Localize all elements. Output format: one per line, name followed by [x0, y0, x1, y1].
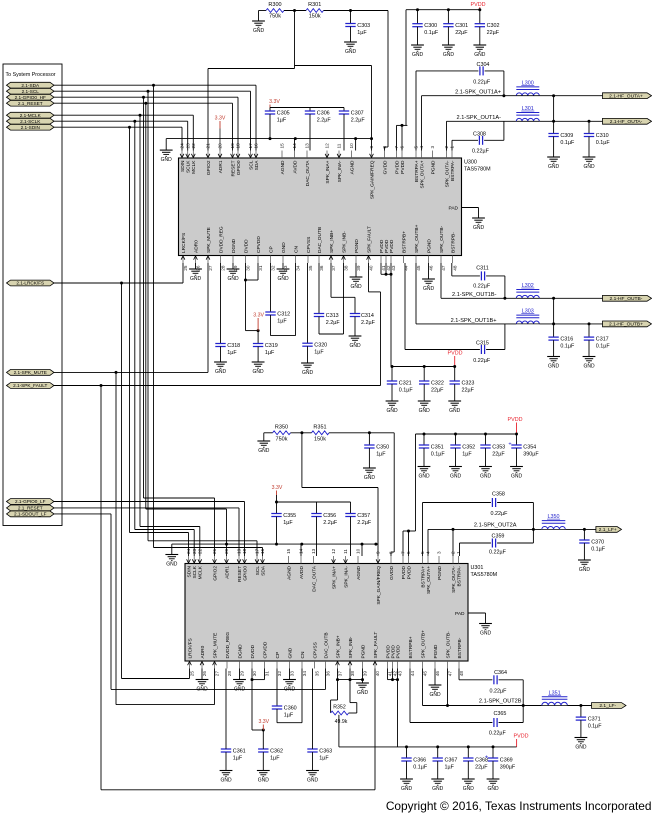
- svg-text:PGND: PGND: [430, 160, 436, 174]
- svg-text:0.22µF: 0.22µF: [489, 730, 507, 736]
- svg-text:ADR1: ADR1: [224, 566, 230, 579]
- svg-text:GVDD: GVDD: [382, 160, 388, 174]
- svg-text:30: 30: [246, 265, 251, 271]
- svg-text:28: 28: [221, 265, 226, 271]
- svg-text:0.1µF: 0.1µF: [588, 723, 603, 729]
- svg-text:26: 26: [196, 265, 201, 271]
- svg-text:1µF: 1µF: [277, 117, 287, 123]
- svg-text:GND: GND: [480, 473, 492, 479]
- svg-text:SPK_OUTB-: SPK_OUTB-: [445, 631, 451, 659]
- svg-text:GND: GND: [583, 363, 595, 369]
- svg-text:PVDD: PVDD: [394, 160, 400, 174]
- svg-text:44: 44: [410, 671, 415, 677]
- svg-text:2.2µF: 2.2µF: [317, 117, 332, 123]
- svg-text:SPK_OUTA+: SPK_OUTA+: [426, 566, 432, 594]
- svg-text:SPK_OUTB+: SPK_OUTB+: [420, 630, 426, 659]
- svg-text:C320: C320: [314, 343, 327, 349]
- svg-text:2.1-SCL: 2.1-SCL: [22, 89, 40, 94]
- svg-text:+: +: [508, 442, 511, 448]
- svg-text:SCL: SCL: [248, 160, 254, 170]
- svg-text:31: 31: [265, 671, 270, 677]
- svg-text:1µF: 1µF: [319, 755, 329, 761]
- svg-text:C303: C303: [357, 23, 370, 29]
- svg-text:GND: GND: [345, 49, 357, 55]
- svg-text:10: 10: [356, 548, 361, 554]
- svg-text:22µF: 22µF: [462, 387, 475, 393]
- svg-text:2.1-SDIN: 2.1-SDIN: [21, 125, 40, 130]
- svg-text:C365: C365: [493, 711, 506, 717]
- svg-text:2.1-HF_OUTB-: 2.1-HF_OUTB-: [610, 296, 643, 302]
- svg-text:48: 48: [459, 671, 464, 677]
- svg-text:390µF: 390µF: [523, 451, 539, 457]
- svg-text:1µF: 1µF: [233, 755, 243, 761]
- svg-text:AGND: AGND: [280, 160, 286, 174]
- svg-text:SCL: SCL: [255, 566, 261, 576]
- svg-text:CN: CN: [300, 651, 306, 658]
- svg-text:R351: R351: [313, 425, 326, 431]
- svg-text:GND: GND: [277, 276, 289, 282]
- svg-text:GND: GND: [386, 408, 398, 414]
- svg-text:34: 34: [302, 671, 307, 677]
- svg-text:2.1-GPIO0_LF: 2.1-GPIO0_LF: [15, 499, 46, 504]
- svg-text:2.1-HF_OUTA-: 2.1-HF_OUTA-: [610, 119, 643, 125]
- svg-text:3: 3: [437, 551, 442, 554]
- svg-text:C371: C371: [588, 717, 601, 723]
- svg-text:DVDD_REG: DVDD_REG: [218, 226, 224, 253]
- svg-text:28: 28: [227, 671, 232, 677]
- svg-text:SPK_INB+: SPK_INB+: [329, 230, 335, 253]
- svg-text:C359: C359: [492, 533, 505, 539]
- svg-text:C352: C352: [462, 445, 475, 451]
- svg-text:SPK_GAIN/FREQ: SPK_GAIN/FREQ: [376, 566, 382, 605]
- svg-text:GND: GND: [166, 561, 178, 567]
- svg-text:32: 32: [271, 265, 276, 271]
- svg-text:DAC_OUTB: DAC_OUTB: [317, 227, 323, 253]
- svg-text:GND: GND: [419, 408, 431, 414]
- svg-text:0.1µF: 0.1µF: [591, 546, 606, 552]
- svg-text:25: 25: [190, 671, 195, 677]
- svg-text:33: 33: [283, 265, 288, 271]
- svg-text:GND: GND: [412, 52, 424, 58]
- svg-text:30: 30: [252, 671, 257, 677]
- svg-text:GND: GND: [429, 692, 441, 698]
- svg-text:2.2µF: 2.2µF: [361, 320, 376, 326]
- svg-text:C364: C364: [494, 670, 507, 676]
- svg-text:C304: C304: [477, 62, 490, 68]
- svg-text:1µF: 1µF: [265, 350, 275, 356]
- svg-text:SDIN: SDIN: [180, 160, 186, 172]
- svg-text:GND: GND: [487, 786, 499, 792]
- svg-text:C309: C309: [560, 133, 573, 139]
- svg-text:DAC_OUTA: DAC_OUTA: [305, 160, 311, 187]
- svg-text:1µF: 1µF: [277, 318, 287, 324]
- svg-text:390µF: 390µF: [500, 764, 516, 770]
- svg-text:C360: C360: [284, 706, 297, 712]
- svg-text:0.22µF: 0.22µF: [490, 688, 508, 694]
- svg-text:0.22µF: 0.22µF: [472, 149, 490, 155]
- svg-text:C307: C307: [351, 111, 364, 117]
- svg-text:SPK_MUTE: SPK_MUTE: [206, 227, 212, 253]
- svg-text:R301: R301: [308, 2, 321, 8]
- svg-text:C322: C322: [431, 381, 444, 387]
- svg-text:13: 13: [305, 143, 310, 149]
- svg-text:Copyright © 2016, Texas Instru: Copyright © 2016, Texas Instruments Inco…: [386, 799, 652, 813]
- svg-text:SDA: SDA: [260, 565, 266, 576]
- svg-text:C354: C354: [523, 445, 536, 451]
- svg-text:C319: C319: [265, 343, 278, 349]
- svg-text:GPIO2: GPIO2: [206, 160, 212, 175]
- svg-text:2.2µF: 2.2µF: [357, 520, 372, 526]
- svg-text:PVDD: PVDD: [514, 733, 529, 739]
- svg-text:SDA: SDA: [254, 160, 260, 171]
- svg-text:U300: U300: [464, 160, 477, 166]
- svg-text:35: 35: [315, 671, 320, 677]
- svg-text:3.3V: 3.3V: [272, 485, 283, 491]
- svg-text:27: 27: [215, 671, 220, 677]
- svg-text:39: 39: [363, 671, 368, 677]
- svg-text:CPVDD: CPVDD: [256, 236, 262, 253]
- svg-text:C305: C305: [277, 111, 290, 117]
- svg-text:GND: GND: [349, 343, 361, 349]
- svg-text:22µF: 22µF: [492, 451, 505, 457]
- svg-text:BSTRPB+: BSTRPB+: [408, 636, 414, 658]
- svg-text:C316: C316: [560, 337, 573, 343]
- svg-text:C353: C353: [492, 445, 505, 451]
- svg-text:GND: GND: [575, 744, 587, 750]
- svg-text:GPIO0: GPIO0: [236, 160, 242, 175]
- svg-text:C350: C350: [376, 445, 389, 451]
- svg-text:SPK_INB-: SPK_INB-: [341, 231, 347, 253]
- svg-text:DGND: DGND: [231, 238, 237, 253]
- svg-text:47: 47: [441, 265, 446, 271]
- svg-text:C317: C317: [596, 337, 609, 343]
- svg-text:BSTRPB+: BSTRPB+: [401, 231, 407, 253]
- svg-text:AVDD: AVDD: [299, 565, 305, 579]
- svg-text:DVDD_REG: DVDD_REG: [225, 632, 231, 659]
- svg-text:PGND: PGND: [354, 239, 360, 253]
- svg-text:PAD: PAD: [455, 611, 465, 617]
- svg-text:SDIN: SDIN: [186, 565, 192, 577]
- svg-text:C311: C311: [476, 266, 489, 272]
- svg-text:150k: 150k: [309, 13, 321, 19]
- svg-text:C357: C357: [357, 513, 370, 519]
- svg-text:SPK_INA+: SPK_INA+: [325, 160, 331, 183]
- svg-text:GND: GND: [258, 448, 270, 454]
- svg-text:40: 40: [369, 265, 374, 271]
- svg-text:0.22µF: 0.22µF: [489, 549, 507, 555]
- svg-text:CPVSS: CPVSS: [306, 237, 312, 253]
- svg-text:GND: GND: [511, 473, 523, 479]
- svg-text:BSTRPA+: BSTRPA+: [420, 566, 426, 588]
- svg-text:PGND: PGND: [360, 644, 366, 658]
- svg-text:CPVSS: CPVSS: [312, 642, 318, 658]
- svg-text:C308: C308: [473, 131, 486, 137]
- svg-text:46: 46: [435, 671, 440, 677]
- svg-text:GND: GND: [307, 777, 319, 783]
- svg-text:PVDD: PVDD: [448, 350, 463, 356]
- svg-text:+: +: [485, 755, 488, 761]
- svg-text:1µF: 1µF: [284, 712, 294, 718]
- svg-text:C362: C362: [270, 749, 283, 755]
- svg-text:GPIO2: GPIO2: [212, 566, 218, 581]
- svg-text:37: 37: [331, 265, 336, 271]
- svg-text:GND: GND: [215, 369, 227, 375]
- svg-text:PVDD: PVDD: [400, 160, 406, 174]
- svg-text:PGND: PGND: [437, 565, 443, 579]
- svg-text:ADR1: ADR1: [218, 160, 224, 173]
- svg-text:3.3V: 3.3V: [258, 719, 269, 725]
- svg-text:CP: CP: [268, 246, 274, 253]
- svg-text:C314: C314: [361, 313, 374, 319]
- svg-text:GND: GND: [190, 276, 202, 282]
- svg-text:750k: 750k: [269, 13, 281, 19]
- svg-text:46: 46: [429, 265, 434, 271]
- svg-text:ADR0: ADR0: [193, 240, 199, 253]
- svg-text:To System Processor: To System Processor: [6, 72, 56, 78]
- svg-text:2.1_RESET: 2.1_RESET: [18, 101, 43, 106]
- svg-text:SPK_OUTA-: SPK_OUTA-: [451, 566, 457, 593]
- svg-text:43: 43: [398, 671, 403, 677]
- svg-text:DAC_OUTA: DAC_OUTA: [311, 565, 317, 592]
- svg-text:2.1-SPK_MUTE: 2.1-SPK_MUTE: [14, 370, 47, 375]
- svg-text:33: 33: [290, 671, 295, 677]
- svg-text:PVDD: PVDD: [389, 239, 395, 253]
- svg-text:C321: C321: [399, 381, 412, 387]
- svg-text:40: 40: [375, 671, 380, 677]
- svg-text:32: 32: [277, 671, 282, 677]
- svg-text:GND: GND: [548, 164, 560, 170]
- svg-text:R350: R350: [275, 425, 288, 431]
- svg-text:GND: GND: [474, 52, 486, 58]
- svg-text:C355: C355: [283, 513, 296, 519]
- svg-text:2.1-SDOUT_LF: 2.1-SDOUT_LF: [14, 512, 47, 517]
- svg-text:C369: C369: [500, 758, 513, 764]
- svg-text:ADR0: ADR0: [200, 645, 206, 658]
- svg-text:PVDD: PVDD: [401, 565, 407, 579]
- svg-text:AGND: AGND: [286, 565, 292, 579]
- svg-text:R300: R300: [268, 2, 281, 8]
- svg-text:48: 48: [453, 265, 458, 271]
- svg-text:2.1-SPK_FAULT: 2.1-SPK_FAULT: [13, 383, 47, 388]
- svg-text:PVDD: PVDD: [406, 565, 412, 579]
- svg-text:3.3V: 3.3V: [215, 116, 226, 122]
- svg-text:CN: CN: [293, 246, 299, 253]
- svg-text:C323: C323: [462, 381, 475, 387]
- svg-text:GND: GND: [473, 225, 485, 231]
- svg-text:11: 11: [343, 549, 348, 554]
- svg-text:SPK_INB+: SPK_INB+: [335, 635, 341, 658]
- svg-text:12: 12: [331, 548, 336, 554]
- svg-text:0.1µF: 0.1µF: [431, 451, 446, 457]
- svg-text:SPK_GAIN/FREQ: SPK_GAIN/FREQ: [369, 160, 375, 199]
- svg-text:C310: C310: [596, 133, 609, 139]
- svg-text:SCLK: SCLK: [192, 565, 198, 578]
- svg-text:SPK_INA-: SPK_INA-: [343, 566, 349, 588]
- svg-text:GND: GND: [423, 286, 435, 292]
- svg-text:C367: C367: [445, 758, 458, 764]
- svg-text:2.1-LRCK/FS: 2.1-LRCK/FS: [16, 281, 44, 286]
- svg-text:150k: 150k: [314, 436, 326, 442]
- svg-text:R352: R352: [333, 704, 346, 710]
- svg-text:29: 29: [240, 671, 245, 677]
- svg-text:SPK_FAULT: SPK_FAULT: [373, 632, 379, 659]
- svg-text:1: 1: [456, 551, 461, 554]
- svg-text:GND: GND: [284, 686, 296, 692]
- svg-text:RESET: RESET: [230, 160, 236, 176]
- svg-text:GND: GND: [449, 408, 461, 414]
- svg-text:34: 34: [296, 265, 301, 271]
- svg-text:GND: GND: [227, 276, 239, 282]
- svg-text:2.2µF: 2.2µF: [323, 520, 338, 526]
- svg-text:15: 15: [280, 143, 285, 149]
- svg-text:1µF: 1µF: [357, 30, 367, 36]
- svg-text:3.3V: 3.3V: [269, 99, 280, 105]
- svg-text:0.1µF: 0.1µF: [560, 343, 575, 349]
- svg-text:BSTRPB-: BSTRPB-: [457, 637, 463, 658]
- svg-text:26: 26: [202, 671, 207, 677]
- svg-text:PAD: PAD: [448, 206, 458, 212]
- svg-text:3.3V: 3.3V: [253, 313, 264, 319]
- svg-text:3: 3: [430, 146, 435, 149]
- svg-text:BSTRPA+: BSTRPA+: [414, 160, 420, 182]
- svg-text:2.1-SPK_OUT2B: 2.1-SPK_OUT2B: [479, 698, 522, 704]
- svg-text:C370: C370: [591, 540, 604, 546]
- svg-text:GND: GND: [480, 630, 492, 636]
- svg-text:49.9k: 49.9k: [335, 719, 348, 725]
- svg-text:C361: C361: [233, 749, 246, 755]
- svg-text:GND: GND: [432, 786, 444, 792]
- svg-text:2.2µF: 2.2µF: [351, 117, 366, 123]
- svg-text:22µF: 22µF: [455, 30, 468, 36]
- svg-text:GND: GND: [196, 686, 208, 692]
- svg-text:750k: 750k: [276, 436, 288, 442]
- svg-text:GND: GND: [220, 777, 232, 783]
- svg-text:38: 38: [344, 265, 349, 271]
- svg-text:DAC_OUTB: DAC_OUTB: [323, 632, 329, 658]
- svg-text:GND: GND: [253, 28, 265, 34]
- svg-text:SPK_OUTA+: SPK_OUTA+: [419, 160, 425, 188]
- svg-text:37: 37: [338, 671, 343, 677]
- svg-text:SPK_INB-: SPK_INB-: [348, 636, 354, 658]
- svg-text:10: 10: [349, 143, 354, 149]
- svg-text:GND: GND: [357, 690, 369, 696]
- svg-text:AVDD: AVDD: [292, 160, 298, 174]
- svg-text:45: 45: [416, 265, 421, 271]
- svg-text:LRCK/FS: LRCK/FS: [187, 638, 193, 658]
- svg-text:25: 25: [183, 265, 188, 271]
- svg-text:29: 29: [233, 265, 238, 271]
- svg-text:GND: GND: [234, 686, 246, 692]
- svg-text:27: 27: [208, 265, 213, 271]
- svg-text:2.1-MCLK: 2.1-MCLK: [20, 113, 42, 118]
- svg-text:GND: GND: [258, 777, 270, 783]
- svg-text:C306: C306: [317, 111, 330, 117]
- svg-text:36: 36: [326, 671, 331, 677]
- svg-text:SPK_OUTA-: SPK_OUTA-: [444, 160, 450, 187]
- svg-text:35: 35: [308, 265, 313, 271]
- svg-text:C302: C302: [487, 23, 500, 29]
- svg-text:47: 47: [448, 671, 453, 677]
- svg-text:36: 36: [319, 265, 324, 271]
- svg-text:DGND: DGND: [237, 644, 243, 659]
- svg-text:GND: GND: [450, 473, 462, 479]
- svg-text:1µF: 1µF: [445, 764, 455, 770]
- svg-text:43: 43: [391, 265, 396, 271]
- svg-text:DVDD: DVDD: [250, 644, 256, 658]
- svg-text:C358: C358: [492, 491, 505, 497]
- svg-text:0.1µF: 0.1µF: [424, 30, 439, 36]
- svg-text:GND: GND: [583, 164, 595, 170]
- svg-text:38: 38: [350, 671, 355, 677]
- svg-text:SPK_FAULT: SPK_FAULT: [366, 226, 372, 253]
- svg-text:BSTRPB-: BSTRPB-: [450, 232, 456, 253]
- svg-text:LRCK/FS: LRCK/FS: [181, 233, 187, 253]
- svg-text:MCLK: MCLK: [191, 160, 197, 174]
- svg-text:GPIO0: GPIO0: [242, 566, 248, 581]
- svg-text:GND: GND: [364, 475, 376, 481]
- svg-text:SCLK: SCLK: [186, 160, 192, 173]
- svg-text:22µF: 22µF: [487, 30, 500, 36]
- svg-text:2.2µF: 2.2µF: [326, 320, 341, 326]
- svg-text:2.1-HF_OUTA+: 2.1-HF_OUTA+: [609, 93, 643, 99]
- svg-text:0.1µF: 0.1µF: [399, 387, 414, 393]
- svg-text:C318: C318: [227, 343, 240, 349]
- svg-text:0.22µF: 0.22µF: [473, 358, 491, 364]
- svg-text:BSTRPA-: BSTRPA-: [456, 566, 462, 587]
- svg-text:AGND: AGND: [349, 160, 355, 174]
- svg-text:TAS5780M: TAS5780M: [471, 572, 498, 578]
- svg-text:C312: C312: [277, 312, 290, 318]
- svg-text:SPK_OUTB-: SPK_OUTB-: [439, 225, 445, 253]
- svg-text:CPVDD: CPVDD: [262, 641, 268, 658]
- svg-text:22µF: 22µF: [431, 387, 444, 393]
- svg-text:2.1-SPK_OUT1B-: 2.1-SPK_OUT1B-: [452, 292, 497, 298]
- svg-text:C366: C366: [413, 758, 426, 764]
- svg-text:GND: GND: [548, 363, 560, 369]
- svg-text:2.1-SPK_OUT2A: 2.1-SPK_OUT2A: [474, 522, 517, 528]
- svg-text:31: 31: [258, 265, 263, 271]
- svg-text:0.1µF: 0.1µF: [560, 140, 575, 146]
- svg-text:GND: GND: [579, 567, 591, 573]
- svg-text:2.1-HF_OUTB+: 2.1-HF_OUTB+: [609, 322, 643, 328]
- svg-text:GND: GND: [401, 786, 413, 792]
- svg-text:2.1-SPK_OUT1B+: 2.1-SPK_OUT1B+: [451, 318, 497, 324]
- svg-text:2.1-SDA: 2.1-SDA: [21, 83, 40, 88]
- svg-text:2.1-SCLK: 2.1-SCLK: [20, 119, 41, 124]
- svg-text:22µF: 22µF: [475, 764, 488, 770]
- svg-text:2.1-GPIO0_HF: 2.1-GPIO0_HF: [15, 95, 46, 100]
- svg-text:C356: C356: [323, 513, 336, 519]
- svg-text:GND: GND: [161, 157, 173, 163]
- svg-text:C351: C351: [431, 445, 444, 451]
- svg-text:1µF: 1µF: [227, 350, 237, 356]
- svg-text:BSTRPA-: BSTRPA-: [450, 160, 456, 181]
- svg-text:PGND: PGND: [433, 644, 439, 658]
- svg-text:GND: GND: [418, 473, 430, 479]
- svg-text:SPK_MUTE: SPK_MUTE: [212, 633, 218, 659]
- svg-text:0.1µF: 0.1µF: [413, 764, 428, 770]
- svg-text:1µF: 1µF: [314, 350, 324, 356]
- svg-text:PVDD: PVDD: [395, 645, 401, 659]
- svg-text:MCLK: MCLK: [198, 565, 204, 579]
- svg-text:2.1-SPK_OUT1A-: 2.1-SPK_OUT1A-: [457, 115, 502, 121]
- svg-text:GND: GND: [253, 369, 265, 375]
- svg-text:DVDD: DVDD: [243, 239, 249, 253]
- svg-text:PGND: PGND: [426, 239, 432, 253]
- svg-text:0.22µF: 0.22µF: [473, 283, 491, 289]
- svg-text:GND: GND: [443, 52, 455, 58]
- svg-text:C363: C363: [319, 749, 332, 755]
